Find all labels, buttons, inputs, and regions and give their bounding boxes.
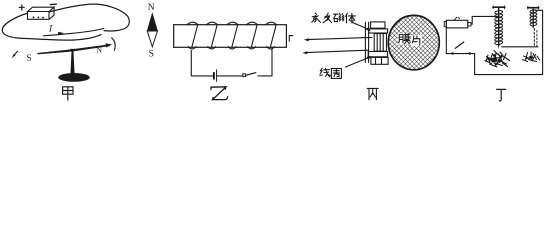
- current arrow on loop: [58, 32, 64, 36]
- magnet vertical bar: [365, 22, 368, 62]
- battery box: [446, 20, 468, 28]
- white label patches: [398, 33, 409, 45]
- right nail hidden part (dashed): [533, 29, 535, 48]
- left nail shaft: [498, 7, 500, 44]
- attracted pins cluster left: [485, 51, 510, 68]
- char ci: [334, 14, 344, 22]
- switch lever: [246, 73, 256, 76]
- switch wire: [446, 53, 474, 55]
- battery nub: [468, 23, 471, 27]
- bottom wire: [475, 74, 543, 76]
- right nail head: [528, 7, 539, 9]
- attracted pins cluster right: [523, 52, 540, 62]
- switch terminal dots: [451, 52, 453, 54]
- top wire to left nail: [471, 16, 499, 24]
- plus label: [19, 5, 24, 10]
- coil lead left: [190, 51, 192, 76]
- diaphragm disc (hatched): [388, 15, 439, 69]
- rotation arc near N: [112, 38, 116, 50]
- left nail head: [493, 6, 505, 8]
- rotation arrow near S: [14, 51, 18, 55]
- coil on pole (striped): [374, 34, 386, 52]
- compass needle south half (open): [147, 31, 157, 47]
- right nail shaft: [532, 8, 534, 28]
- char yong: [312, 13, 321, 22]
- label xianquan (coil) text: [320, 68, 342, 78]
- label yongjiucitci (permanent magnet) text: [312, 13, 356, 23]
- mark above battery: [454, 17, 460, 20]
- magnet top arm: [371, 22, 385, 28]
- left down leg: [474, 54, 476, 75]
- upper pole bar: [369, 29, 388, 33]
- char mo: [399, 33, 410, 44]
- battery terminal dots: [33, 16, 35, 18]
- minus label: [50, 3, 56, 5]
- solenoid core rectangle: [174, 25, 287, 48]
- svg-text:S: S: [27, 53, 32, 63]
- pointer from permanent magnet label: [353, 23, 369, 30]
- battery positive plate: [216, 70, 218, 82]
- svg-text:S: S: [149, 50, 154, 60]
- left nail coil: [495, 10, 503, 45]
- right nail coil: [530, 9, 537, 26]
- pointer from coil label: [346, 58, 369, 67]
- top-left wire stub: [289, 36, 293, 42]
- right riser wire: [535, 10, 543, 74]
- label BING character: [367, 88, 378, 99]
- left wire down: [445, 28, 447, 54]
- char jiu: [323, 13, 332, 23]
- label DING character: [497, 89, 506, 101]
- switch right wire: [258, 75, 272, 77]
- svg-text:N: N: [148, 3, 155, 13]
- char xian: [320, 68, 330, 77]
- coil turn 5: [266, 22, 277, 49]
- wire loop inner back edge: [44, 28, 104, 35]
- svg-text:N: N: [96, 46, 102, 55]
- label JIA character: [63, 87, 73, 100]
- coil turn 4: [247, 22, 258, 49]
- magnet bottom arm: [371, 57, 388, 64]
- char pian: [412, 36, 419, 45]
- char ti: [346, 13, 356, 23]
- top lead wire with arrow: [307, 37, 372, 39]
- lower pole bar: [368, 52, 387, 57]
- bottom lead wire with arrow: [306, 50, 369, 52]
- battery cell 3D box: [28, 7, 55, 19]
- needle N arrowhead: [106, 43, 113, 47]
- coil turn 1: [187, 22, 198, 49]
- pivot stem: [70, 50, 74, 75]
- wire loop left and bottom edge: [2, 14, 101, 41]
- connector wire between nails: [502, 46, 538, 48]
- compass needle: [38, 45, 108, 54]
- coil lead right: [271, 49, 273, 76]
- coil turn 2: [207, 22, 218, 49]
- pivot cup: [70, 49, 75, 54]
- svg-text:I: I: [48, 24, 53, 34]
- pivot base: [58, 73, 90, 82]
- battery negative plate: [213, 73, 215, 79]
- compass needle north half (filled): [147, 13, 157, 31]
- switch lever: [455, 42, 464, 48]
- switch hinge: [243, 74, 246, 77]
- wire to switch: [217, 75, 243, 77]
- char quan: [331, 69, 341, 79]
- bottom wire left: [191, 75, 213, 77]
- label mopian (diaphragm) text: [399, 33, 420, 45]
- battery left flange: [444, 22, 446, 27]
- wire loop top edge: [49, 4, 129, 31]
- coil turn 3: [227, 22, 238, 49]
- label YI character (Z-like): [211, 87, 228, 100]
